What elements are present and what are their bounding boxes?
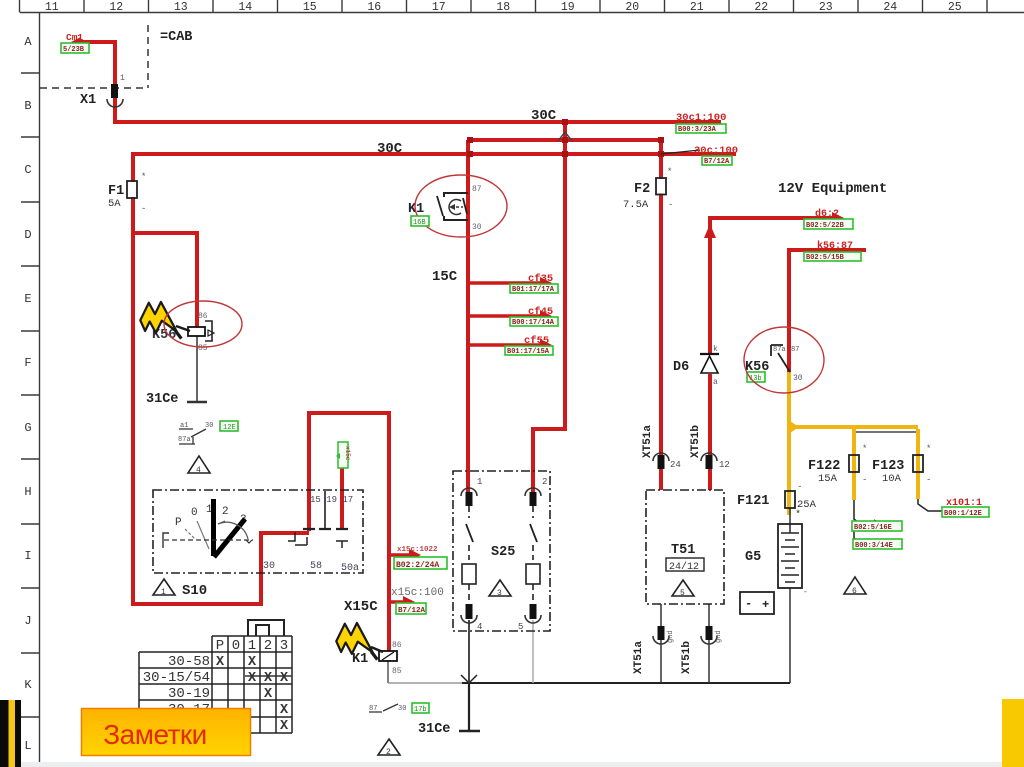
contact ref 87/30 bottom [369,704,398,712]
svg-text:a1: a1 [180,422,188,430]
wire S25 pin4 down [468,620,470,683]
svg-text:k56:87: k56:87 [817,240,853,252]
top ruler numbers [45,1,962,14]
relay contact K56 [771,345,783,356]
svg-text:18: 18 [496,1,510,14]
svg-text:24: 24 [670,460,681,470]
svg-text:87: 87 [472,185,482,194]
wire 31Ce lower drop [468,683,470,731]
green vertical box [338,442,348,468]
warning triangle 5 [672,580,694,596]
svg-text:P: P [216,638,224,654]
wire X15C drop to K1 coil [387,411,391,651]
S10 needle position3 [214,519,245,557]
wire bus 30C lower [131,152,736,156]
wire F2 to XT51a [659,194,663,491]
svg-text:x15c:100: x15c:100 [391,587,444,599]
svg-text:5A: 5A [108,198,121,210]
svg-text:B02:5/15B: B02:5/15B [806,254,845,262]
wire D6 to XT51b [708,374,712,490]
table X marks [216,655,289,734]
svg-text:23: 23 [819,1,833,14]
svg-text:15: 15 [303,1,317,14]
wire 30C drop x565 [533,122,565,496]
green box 12E [220,421,238,431]
fuse F2 [656,178,666,195]
wire G5 minus down [789,588,791,683]
thin black line under yellow bus [854,431,918,433]
svg-text:5/23B: 5/23B [63,46,85,54]
svg-text:F122: F122 [808,459,840,474]
svg-text:4: 4 [477,622,482,632]
svg-text:P: P [175,517,182,529]
wire K1 contact drop x468 [466,140,470,496]
left hazard bar [0,700,21,767]
svg-text:B01:17/15A: B01:17/15A [507,348,550,356]
relay coil K56 [188,327,205,336]
battery G5 [778,524,802,588]
svg-text:I: I [24,549,31,563]
svg-text:Cm1: Cm1 [66,32,83,43]
svg-text:16B: 16B [413,219,426,227]
svg-text:30C: 30C [377,141,403,157]
svg-text:*: * [926,444,931,454]
diode D6 [700,353,719,355]
svg-text:*: * [667,167,672,177]
S10 position table [139,636,292,733]
svg-text:12: 12 [109,1,123,14]
S25 pin1 connector [461,488,477,496]
svg-text:*: * [795,509,801,521]
warning triangle 6 [844,577,866,594]
svg-text:G5: G5 [745,550,761,565]
wire bus 30C top [113,120,721,124]
junction at 565,140 [562,137,568,143]
highlight ellipse K1 [415,175,507,237]
junction at 661,154 [658,151,664,157]
svg-text:*: * [862,444,867,454]
svg-text:D6: D6 [673,360,689,375]
svg-text:L: L [24,739,31,753]
wire K1 coil 85 down [387,660,389,683]
S10 dashed travel line [164,539,253,541]
svg-text:=CAB: =CAB [160,30,192,45]
svg-text:24: 24 [883,1,897,14]
S25 pin2 connector [525,488,541,496]
svg-text:13: 13 [174,1,188,14]
wire F122 tail [854,500,861,544]
wire cf45 branch [468,314,544,318]
svg-text:B00:17/14A: B00:17/14A [512,319,555,327]
strikethrough row2 [245,675,292,677]
wire T51 gnd a [660,604,662,683]
connector X1 pin1 [111,84,118,98]
junction at 470,140 [467,137,473,143]
svg-text:X15C: X15C [344,599,378,615]
svg-text:10A: 10A [882,473,902,485]
svg-text:86: 86 [392,641,402,650]
green box K1 [411,216,429,226]
warning triangle 2 [378,739,400,755]
svg-text:B02:5/22B: B02:5/22B [806,222,845,230]
svg-text:XT51b: XT51b [681,641,693,674]
svg-text:F121: F121 [737,494,769,509]
svg-text:gnd: gnd [715,630,723,643]
svg-text:58: 58 [310,561,322,572]
svg-text:87a: 87a [773,346,786,354]
wire F121 to battery [789,508,791,524]
svg-text:30: 30 [205,422,213,430]
svg-text:H: H [24,485,31,499]
highlight ellipse K56 contact [744,327,824,393]
svg-text:85: 85 [198,344,208,353]
svg-text:12E: 12E [223,424,236,432]
svg-text:x15c: x15c [344,446,351,461]
svg-text:15A: 15A [818,473,838,485]
svg-text:0: 0 [232,638,240,654]
fuse F121 [785,491,795,508]
svg-text:1: 1 [248,638,256,654]
svg-text:17b: 17b [414,706,427,714]
svg-text:1: 1 [161,588,166,597]
svg-text:30c:100: 30c:100 [694,145,738,157]
wire S10 pin15 riser [309,413,389,531]
svg-text:-: - [745,597,752,611]
yellow arrow [790,421,799,433]
svg-text:*: * [141,172,146,182]
svg-text:30-15/54: 30-15/54 [143,670,210,686]
svg-text:-: - [797,482,802,492]
svg-text:D: D [24,228,31,242]
warning triangle 4 [188,456,210,473]
S25 switch blades [468,506,470,560]
svg-text:12: 12 [719,460,730,470]
svg-text:X: X [280,703,289,718]
wire F122 drop yellow [852,429,856,500]
left ruler letters [24,35,32,753]
junction slants at 469,683 [461,675,477,683]
svg-text:C: C [24,163,31,177]
svg-text:16: 16 [367,1,381,14]
table row labels [143,654,210,718]
contact ref a1/30 [179,429,206,444]
svg-text:F: F [24,356,31,370]
warning triangle 3 [489,580,511,596]
connector XT51a bottom [658,626,665,640]
svg-text:30-58: 30-58 [168,654,210,670]
svg-text:B00:3/23A: B00:3/23A [678,126,717,134]
green box 13b [747,372,765,382]
svg-text:T51: T51 [671,543,695,558]
leader 30c:100 [661,150,700,154]
svg-text:15C: 15C [432,269,458,285]
svg-text:20: 20 [625,1,639,14]
highlight ellipse K56 coil [164,301,242,347]
svg-text:X: X [216,655,225,670]
svg-text:X: X [280,671,289,686]
svg-text:87a: 87a [178,436,191,444]
wire S10 loop bottom [131,533,309,604]
svg-text:87: 87 [369,705,377,713]
svg-text:B00:3/14E: B00:3/14E [855,542,893,550]
svg-text:21: 21 [690,1,704,14]
svg-text:B01:17/17A: B01:17/17A [512,286,555,294]
svg-text:XT51a: XT51a [633,641,645,674]
S10 thin slants [197,521,209,549]
svg-text:-: - [926,475,931,485]
svg-text:31Ce: 31Ce [418,722,450,737]
S10 contact hooks [288,532,307,545]
svg-text:31Ce: 31Ce [146,392,178,407]
svg-text:25: 25 [948,1,962,14]
svg-text:14: 14 [238,1,252,14]
right yellow block [1002,699,1024,767]
wire cf35 branch [468,281,544,285]
bottom gray strip [21,762,1002,767]
svg-text:a: a [713,378,718,387]
svg-text:A: A [24,35,32,49]
wire d6:2 branch [710,218,833,353]
battery polarity box [740,592,774,614]
wire S25 pin5 down [532,620,534,683]
svg-text:1: 1 [477,477,482,487]
svg-text:3: 3 [497,589,502,598]
wire k56:87 branch [789,250,866,374]
fuse F122 [849,455,859,472]
S10 terminal bars 15/19/17 [303,528,348,530]
CAB boundary dashed [40,25,148,88]
svg-text:-: - [141,204,146,214]
svg-text:x15c:1022: x15c:1022 [397,546,438,554]
switch box S25 [453,471,550,631]
svg-text:87: 87 [791,346,799,354]
fuse F1 [127,181,137,198]
arrow F122 label2 [862,539,890,542]
svg-text:S10: S10 [182,583,207,599]
svg-text:K1: K1 [352,652,368,667]
connector XT51b bottom [706,626,713,640]
top ruler ticks [20,0,988,13]
wire F123 tail to x101 [918,499,943,511]
left ruler ticks [21,73,40,717]
wire S10 pin17 stub [340,446,344,528]
junction crow foot at 565,140 [558,132,572,141]
wire bus mid [470,138,661,142]
wire F2 branch [659,140,663,179]
S10 needle position1 [211,499,216,556]
svg-text:X: X [264,671,273,686]
ground 31Ce lower [459,730,480,733]
junction at 661,140 [658,137,664,143]
svg-text:XT51b: XT51b [690,425,702,458]
svg-text:X: X [248,671,257,686]
ground 31Ce upper [187,401,207,404]
svg-text:86: 86 [198,312,208,321]
wire Cm1 to X1 (red) [78,42,115,122]
svg-text:F123: F123 [872,459,904,474]
arrow at Cm1 [71,38,80,47]
svg-text:X: X [264,687,273,702]
relay contact K1 [444,193,468,220]
svg-text:30c1:100: 30c1:100 [676,112,726,124]
svg-text:22: 22 [754,1,768,14]
svg-text:X: X [280,719,289,734]
arrow up on d6 wire [704,224,716,238]
svg-text:K: K [24,678,32,692]
svg-text:XT51a: XT51a [642,425,654,458]
S25 pin4 connector [466,604,473,619]
svg-text:30: 30 [793,374,803,383]
svg-text:X1: X1 [80,93,96,108]
junction at 565,122 [562,119,568,125]
S25 element left [462,564,476,584]
svg-text:-: - [862,475,867,485]
svg-text:F2: F2 [634,182,650,197]
svg-text:E: E [24,292,31,306]
svg-text:X: X [248,655,257,670]
green box B00:3/14E [853,539,902,549]
svg-text:J: J [24,614,31,628]
lightning bolt K1 [333,618,388,667]
ignition switch box S10 [153,490,363,573]
wire x15c:100 branch [389,600,406,604]
svg-text:30: 30 [472,223,482,232]
relay coil K1 [379,651,397,661]
svg-text:B02:2/24A: B02:2/24A [396,561,439,570]
wire K56 output yellow vertical [787,372,791,515]
svg-text:-: - [668,200,673,210]
svg-text:G: G [24,421,31,435]
wire yellow bus to F122/F123 [789,425,918,429]
svg-text:85: 85 [392,667,402,676]
svg-text:Заметки: Заметки [103,719,207,750]
svg-text:50a: 50a [341,563,359,574]
svg-text:30C: 30C [531,108,557,124]
svg-text:+: + [762,598,769,612]
fuse F123 [913,455,923,472]
wire T51 gnd b [708,604,710,683]
green box 17b [412,703,429,713]
svg-text:12V Equipment: 12V Equipment [778,181,887,197]
svg-text:30-19: 30-19 [168,686,210,702]
junction at 565,154 [562,151,568,157]
warning triangle 1 [153,579,175,595]
connector XT51a top [653,453,669,461]
wire cf55 branch [468,343,544,347]
svg-text:6: 6 [852,587,857,596]
svg-text:B00:1/12E: B00:1/12E [944,510,982,518]
svg-text:30: 30 [398,705,406,713]
svg-text:17: 17 [432,1,446,14]
svg-text:k: k [713,345,718,354]
svg-text:5: 5 [680,589,685,598]
converter box T51 [646,490,724,604]
svg-text:1: 1 [120,74,125,83]
ground rail gray [388,682,462,684]
svg-text:15 19 17: 15 19 17 [310,495,353,505]
svg-text:24/12: 24/12 [669,561,699,573]
top ruler line [20,12,1024,14]
connector XT51b top [701,453,717,461]
ground rail black [462,682,790,684]
svg-text:2: 2 [222,506,229,518]
wire F123 drop yellow [916,429,920,499]
green box B02:5/16E [852,521,902,531]
table bracket [248,620,284,636]
wire x15c:1022 branch [389,553,412,557]
svg-text:B02:5/16E: B02:5/16E [854,524,892,532]
svg-text:2: 2 [542,477,547,487]
table header text [216,638,288,654]
wire K56 coil branch [133,233,197,327]
svg-text:7.5A: 7.5A [623,199,649,211]
svg-text:2: 2 [386,748,391,757]
svg-text:4: 4 [196,466,201,475]
svg-text:2: 2 [264,638,272,654]
svg-text:11: 11 [45,1,59,14]
svg-text:gnd: gnd [667,630,675,643]
svg-text:30: 30 [263,561,275,572]
svg-text:B7/12A: B7/12A [704,158,730,166]
S25 pin5 connector [530,604,537,619]
svg-text:5: 5 [518,622,523,632]
svg-text:S25: S25 [491,545,515,560]
left ruler line [39,13,41,767]
wire F1 vertical [131,154,135,182]
svg-text:B7/12A: B7/12A [398,607,426,615]
S10 rotation arc [218,522,248,539]
arrow F122 label1 [862,520,880,523]
junction at 470,154 [467,151,473,157]
svg-text:3: 3 [280,638,288,654]
svg-text:19: 19 [561,1,575,14]
svg-text:-: - [803,588,808,597]
svg-text:F1: F1 [108,184,124,199]
wire K56 coil to ground [196,336,198,402]
svg-text:0: 0 [191,507,198,519]
svg-text:B: B [24,99,31,113]
lightning bolt K56 [137,297,192,346]
